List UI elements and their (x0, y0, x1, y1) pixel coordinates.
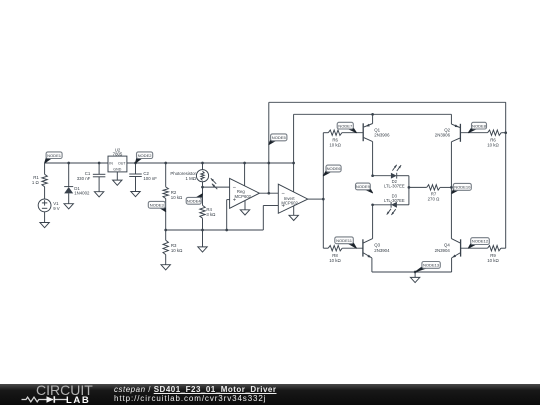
node NODE6 label (323, 165, 341, 176)
svg-text:NODE8: NODE8 (472, 123, 487, 128)
svg-text:IN: IN (109, 162, 113, 166)
svg-text:NODE12: NODE12 (472, 239, 489, 244)
label R1 value (32, 175, 40, 185)
wire LED bottom (371, 203, 409, 206)
transistor Q3 2N3904 (363, 205, 373, 272)
label C2 value (143, 171, 157, 181)
svg-text:10 kΩ: 10 kΩ (487, 142, 499, 147)
wire U2 GND (116, 172, 118, 180)
label Photoresistor value (170, 171, 196, 181)
node NODE7 label (337, 122, 356, 132)
node NODE12 label (468, 238, 489, 249)
wire bottom divider bus (164, 229, 263, 232)
label C1 value (77, 171, 91, 181)
op-amp Invert MCP602 (278, 184, 308, 213)
transistor Q4 2N3904 (451, 187, 460, 272)
svg-text:LTL-307EE: LTL-307EE (384, 198, 405, 203)
label R6 value (329, 137, 341, 147)
transistor Q2 2N3906 (451, 114, 460, 187)
label D2 value (384, 179, 405, 189)
ground below U2 (113, 180, 122, 185)
svg-text:10 kΩ: 10 kΩ (329, 258, 341, 263)
label R9 value (487, 253, 499, 263)
svg-text:LTL-307EE: LTL-307EE (384, 184, 405, 189)
svg-text:MCP602: MCP602 (281, 200, 298, 205)
logo LAB text (66, 395, 90, 406)
svg-text:NODE4: NODE4 (187, 198, 202, 203)
label U2 name (113, 147, 123, 156)
node NODE11 label (335, 237, 357, 248)
led D2 arrows (392, 165, 401, 171)
capacitor C1 (93, 162, 106, 192)
svg-text:3 kΩ: 3 kΩ (206, 212, 216, 217)
diode D1 (64, 187, 73, 204)
wire opamp2 Vminus (293, 206, 295, 215)
resistor R4 (200, 205, 205, 230)
wire junction D1 (67, 162, 70, 187)
wire opamp1 Vminus (244, 201, 246, 210)
wire LED top (371, 174, 409, 177)
svg-text:2N3906: 2N3906 (374, 133, 390, 138)
label Q2 value (435, 127, 451, 137)
svg-text:GND: GND (113, 168, 121, 172)
svg-text:330 nF: 330 nF (77, 176, 91, 181)
svg-text:9 V: 9 V (53, 206, 60, 211)
led D3 (391, 202, 397, 208)
svg-text:10 kΩ: 10 kΩ (171, 195, 183, 200)
svg-text:1N4002: 1N4002 (74, 190, 90, 195)
wire main 5V rail (45, 162, 294, 164)
resistor R3 (163, 230, 168, 265)
ground below opamp1 (240, 210, 249, 215)
svg-text:10 kΩ: 10 kΩ (329, 142, 341, 147)
svg-text:1 Ω: 1 Ω (32, 180, 40, 185)
wire NODE3 ground stub (202, 230, 204, 247)
svg-text:270 Ω: 270 Ω (428, 197, 440, 202)
transistor Q1 2N3906 (363, 113, 374, 176)
voltage source V1 (38, 199, 51, 212)
label R4 value (206, 207, 216, 217)
svg-text:NODE1: NODE1 (47, 153, 62, 158)
node NODE2 label (136, 152, 153, 163)
ground below divider bus (198, 247, 207, 252)
wire V1 to ground (44, 212, 46, 223)
wire right rail (505, 102, 507, 248)
svg-text:NODE10: NODE10 (454, 184, 471, 189)
label Q3 value (374, 243, 390, 253)
wire NODE4 segment (202, 187, 204, 205)
svg-text:NODE2: NODE2 (138, 153, 153, 158)
resistor R2 (163, 162, 168, 230)
svg-text:OUT: OUT (118, 162, 126, 166)
wire opamp2 plus input (263, 206, 278, 231)
photoresistor light arrows (211, 178, 218, 189)
node NODE13 label (415, 262, 440, 273)
label Invert MCP602 (281, 196, 298, 206)
node NODE10 label (451, 183, 471, 193)
label R2 value (171, 190, 183, 200)
resistor R7 (409, 185, 453, 190)
credit text (114, 386, 276, 403)
svg-text:10 kΩ: 10 kΩ (171, 248, 183, 253)
node NODE9 label (356, 183, 373, 193)
ground below C2 (131, 192, 140, 197)
svg-text:NODE7: NODE7 (338, 123, 353, 128)
wire emitter bus (372, 271, 452, 274)
led D3 arrows (387, 209, 396, 215)
wire opamp2 Vplus (292, 114, 295, 192)
label V1 value (53, 201, 60, 211)
pin OUT label (118, 162, 126, 166)
svg-text:2N3904: 2N3904 (435, 248, 451, 253)
ground below opamp2 (289, 215, 298, 220)
node NODE1 label (45, 152, 63, 163)
label R3 value (171, 243, 183, 253)
pin IN label (109, 162, 113, 166)
wire opamp1 output (259, 192, 278, 194)
svg-text:NODE11: NODE11 (336, 238, 353, 243)
node NODE3 label (148, 201, 165, 211)
svg-text:7805: 7805 (113, 152, 123, 157)
label R6b value (487, 137, 499, 147)
svg-text:2N3906: 2N3906 (435, 133, 451, 138)
led D2 (391, 173, 397, 179)
wire NODE5 vertical (267, 102, 270, 194)
wire opamp2 output (308, 198, 324, 200)
photoresistor (196, 162, 208, 187)
node NODE4 label (186, 194, 202, 205)
ground below C1 (94, 192, 103, 197)
ground below R3 (161, 265, 170, 270)
ground below D1 (64, 204, 73, 209)
label R8 value (329, 253, 341, 263)
svg-text:100 nF: 100 nF (143, 176, 157, 181)
svg-text:MCP602: MCP602 (235, 194, 252, 199)
label Q1 value (374, 127, 390, 137)
wire ground lead (414, 272, 416, 277)
resistor R6 (323, 130, 363, 135)
ground NODE13 (410, 277, 419, 282)
ground below V1 (40, 223, 49, 228)
footer bar (0, 384, 540, 405)
logo resistor-diode glyph (20, 394, 70, 406)
pin GND label (113, 168, 121, 172)
capacitor C2 (129, 162, 142, 192)
wire photoresistor to opamp minus (203, 186, 230, 188)
wire NODE6 vertical (322, 133, 325, 249)
wire opamp1 Vplus (243, 162, 246, 186)
label D1 value (74, 186, 90, 196)
node NODE8 label (468, 122, 486, 132)
label R7 value (428, 192, 440, 202)
svg-text:10 kΩ: 10 kΩ (487, 258, 499, 263)
resistor R6b (460, 130, 507, 135)
wire top outer rail (269, 101, 506, 103)
svg-text:NODE6: NODE6 (327, 166, 342, 171)
svg-text:NODE9: NODE9 (356, 184, 371, 189)
wire opamp1 plus input (227, 200, 230, 230)
wire LED right rail (408, 176, 411, 205)
label Reg MCP602 (235, 189, 252, 199)
regulator U2 7805 box (108, 156, 127, 172)
svg-text:1 MΩ: 1 MΩ (186, 176, 197, 181)
svg-text:NODE3: NODE3 (150, 202, 165, 207)
resistor R9 (461, 246, 506, 251)
label Q4 value (435, 243, 451, 253)
svg-text:NODE13: NODE13 (423, 263, 440, 268)
svg-text:NODE5: NODE5 (272, 135, 287, 140)
label D3 value (384, 194, 405, 204)
wire inner top rail (294, 113, 452, 115)
resistor R1 (42, 163, 47, 199)
node junction NODE4 (201, 186, 204, 189)
CircuitLab logo text (36, 383, 93, 397)
node NODE5 label (269, 134, 287, 145)
op-amp Reg MCP602 (230, 178, 260, 208)
svg-text:2N3904: 2N3904 (374, 248, 390, 253)
resistor R8 (323, 246, 363, 251)
